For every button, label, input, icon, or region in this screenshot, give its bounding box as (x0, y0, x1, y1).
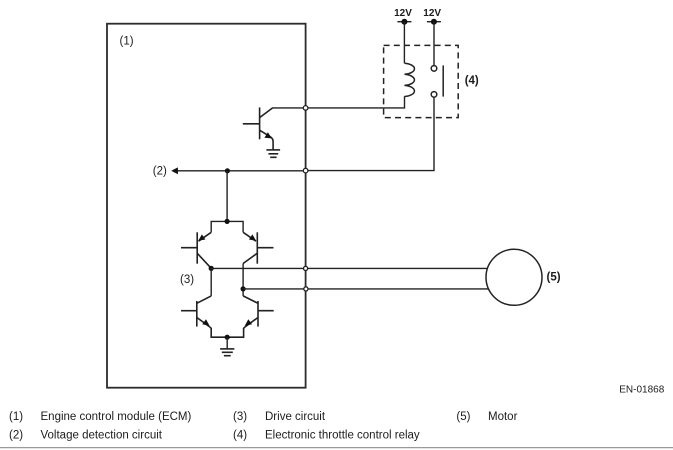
svg-text:(2): (2) (9, 430, 23, 442)
node J3 bottom center (225, 335, 230, 340)
ground G2 (220, 349, 234, 356)
ground G1 (266, 150, 280, 157)
relay switch S1 (431, 65, 443, 97)
bottom rule (0, 447, 673, 449)
svg-text:EN-01868: EN-01868 (619, 385, 664, 396)
12V terminal T1 (397, 19, 411, 25)
relay box (4) dashed (384, 45, 459, 117)
svg-text:(5): (5) (456, 411, 470, 423)
svg-text:Motor: Motor (488, 411, 518, 423)
wire (2) voltage detection line (174, 170, 304, 172)
motor M1 circle (486, 249, 542, 305)
emitter arrow Q5 (245, 319, 252, 326)
12V terminal T2 (427, 19, 441, 25)
svg-text:(1): (1) (9, 411, 23, 423)
transistor Q1 (243, 107, 273, 150)
svg-text:(5): (5) (547, 272, 561, 284)
svg-text:(3): (3) (233, 411, 247, 423)
svg-text:(4): (4) (465, 75, 479, 87)
node J2 top rail (225, 219, 230, 224)
svg-text:Electronic throttle control re: Electronic throttle control relay (265, 430, 420, 442)
node A junction (209, 266, 214, 271)
node J1 on (2) line (225, 168, 230, 173)
terminal circle P3 (motor out upper) (304, 266, 308, 270)
relay coil L1 (405, 63, 415, 96)
svg-text:12V: 12V (423, 8, 441, 19)
svg-text:12V: 12V (394, 8, 412, 19)
terminal circle P1 (collector out) (303, 106, 308, 111)
svg-text:Voltage detection circuit: Voltage detection circuit (41, 430, 163, 442)
node B junction (241, 286, 246, 291)
emitter arrow Q4 (202, 319, 209, 326)
wire J1 down to H-bridge top (226, 171, 228, 222)
wire right rail down to node B (242, 264, 244, 296)
svg-text:Drive circuit: Drive circuit (265, 411, 326, 423)
wire node B to motor (243, 288, 489, 290)
svg-text:(1): (1) (120, 35, 134, 47)
wire 12V T1 to coil (403, 22, 405, 64)
ECM box U1 (engine control module) (107, 24, 306, 388)
svg-text:(2): (2) (153, 166, 167, 178)
terminal circle P4 (motor out lower) (304, 287, 308, 291)
transistor Q5 (lower-right NPN) (228, 296, 274, 337)
terminal circle P2 (relay in) (303, 168, 308, 173)
wire 12V T2 to switch (433, 22, 435, 66)
svg-text:Engine control module (ECM): Engine control module (ECM) (41, 411, 192, 423)
emitter arrow Q3 (249, 234, 256, 240)
transistor Q3 (upper-right PNP) (243, 232, 273, 263)
svg-text:(3): (3) (180, 274, 194, 286)
emitter arrow Q2 (198, 234, 205, 240)
transistor Q4 (lower-left NPN) (181, 296, 227, 337)
emitter arrow Q1 (264, 132, 271, 138)
wire node A down to Q4 (210, 268, 212, 296)
transistor Q2 (upper-left PNP) (181, 232, 211, 268)
arrow head (2) (171, 167, 178, 174)
wire collector Q1 to relay coil (272, 96, 404, 108)
wire switch down to voltage-detection line (308, 97, 434, 170)
wire J3 to ground (226, 337, 228, 349)
wire node A to motor (211, 267, 488, 269)
H-bridge top rail (211, 221, 243, 232)
svg-text:(4): (4) (233, 430, 247, 442)
